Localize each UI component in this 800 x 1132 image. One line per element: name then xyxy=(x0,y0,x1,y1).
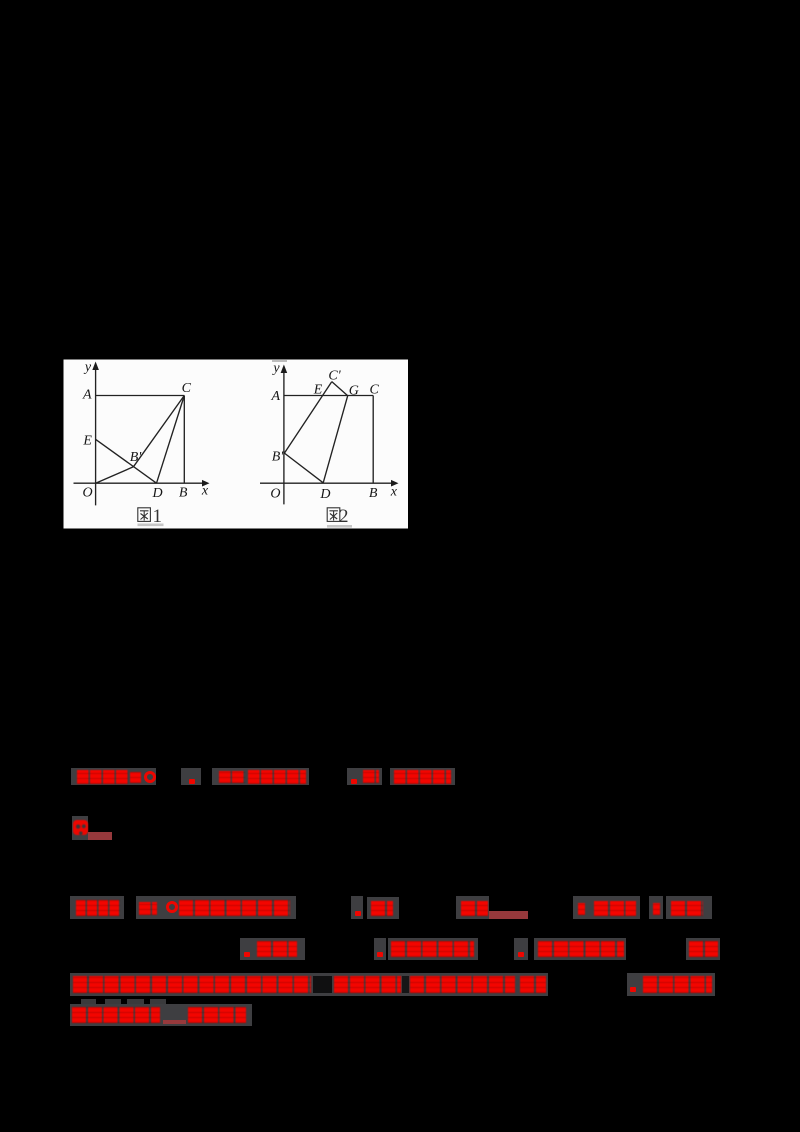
row1 text 【答案】 xyxy=(77,770,128,784)
fig1 square top AC xyxy=(96,395,185,397)
row2 underline bar xyxy=(88,832,112,840)
row4 comma xyxy=(244,952,250,957)
svg-text:B': B' xyxy=(272,450,285,465)
row4 comma xyxy=(377,952,383,957)
svg-text:E: E xyxy=(82,434,92,449)
fig1 segment DC xyxy=(157,396,185,484)
row3 text (或者 xyxy=(594,901,636,916)
svg-text:O: O xyxy=(83,486,93,501)
row3 text 先用 xyxy=(671,901,703,916)
svg-text:B': B' xyxy=(130,450,143,465)
svg-text:A: A xyxy=(82,388,92,403)
fig2 segment GD xyxy=(323,396,348,483)
fig2 y-axis arrowhead xyxy=(281,365,288,374)
row4 gray comma2 xyxy=(374,938,386,960)
row2 gray box xyxy=(72,816,89,840)
row3 gray run b xyxy=(136,896,296,919)
row3 gray comma xyxy=(351,896,363,919)
row3 gray ; xyxy=(649,896,663,919)
svg-text:G: G xyxy=(349,383,359,398)
row3 semicolon xyxy=(653,903,660,915)
svg-text:x: x xyxy=(390,484,398,499)
fig2 segment C'G xyxy=(332,382,348,396)
svg-text:A: A xyxy=(271,389,281,404)
row3 text (1) xyxy=(139,902,157,915)
svg-text:D: D xyxy=(152,486,163,501)
svg-text:C: C xyxy=(182,381,192,396)
row4 gray run xyxy=(388,938,478,960)
row1 text (1) xyxy=(130,772,141,783)
row4 text 再用…的坐标 xyxy=(538,941,624,957)
fig2 segment B'C' xyxy=(284,382,331,454)
svg-text:D: D xyxy=(319,487,330,502)
row3 gray run a xyxy=(70,896,124,919)
svg-text:B: B xyxy=(369,486,378,501)
row1 text 的坐标为 xyxy=(248,770,306,784)
fig1 segment B'C xyxy=(133,396,184,467)
row3 text 可得 xyxy=(461,901,488,916)
row4 gray 得出 xyxy=(253,938,305,960)
row4 gray comma3 xyxy=(514,938,528,960)
row3 text 先用轴对称性质 xyxy=(179,900,290,916)
row3 underline bar xyxy=(489,911,528,919)
inter-row gray dashes xyxy=(81,999,96,1005)
fig2 x-axis arrowhead xyxy=(391,480,399,487)
fig2 segment DB' xyxy=(284,453,323,483)
row3 gray 先用 xyxy=(666,896,712,919)
row4 text 得出D的坐标为 xyxy=(391,941,474,957)
row3 gray 得出 xyxy=(367,897,399,919)
row4 text 得出 xyxy=(257,941,297,957)
svg-text:2: 2 xyxy=(339,506,349,527)
row5 gray run5 xyxy=(639,973,715,996)
row5 text run2 xyxy=(334,976,401,993)
row4 text 可得 xyxy=(689,941,718,957)
row1 text 点D xyxy=(219,771,245,783)
svg-text:y: y xyxy=(83,360,92,375)
row1 circled 1 xyxy=(144,771,156,783)
row1 gray run d xyxy=(347,768,382,785)
row1 comma xyxy=(351,779,357,784)
row1 gray run e xyxy=(390,768,455,785)
svg-text:E: E xyxy=(313,383,323,398)
row5 dark gap xyxy=(313,976,332,993)
row3 gray (或者 xyxy=(590,896,640,919)
caption 图2 xyxy=(327,508,340,522)
fig2 square top AC xyxy=(284,395,373,397)
row5 gray band xyxy=(70,973,548,996)
row5 gray comma xyxy=(627,973,639,996)
svg-text:C': C' xyxy=(328,369,341,384)
svg-text:y: y xyxy=(271,361,280,376)
row3 text 得出 xyxy=(371,901,393,916)
fig1 y-axis xyxy=(95,366,97,505)
row6 gray run1 xyxy=(70,1004,252,1026)
fig2 y-axis xyxy=(283,367,285,504)
fig2 x-axis xyxy=(260,482,393,484)
row1 gray run c xyxy=(212,768,309,785)
row4 comma xyxy=(518,952,524,957)
row1 comma xyxy=(189,779,195,784)
row1 text 的坐标为（ xyxy=(394,770,451,784)
row3 text 【解析】 xyxy=(76,900,120,916)
row5 text run3 xyxy=(410,976,515,993)
row3 comma xyxy=(355,911,361,916)
row6 text run1 xyxy=(72,1007,160,1023)
svg-text:O: O xyxy=(270,487,280,502)
row5 text run4 xyxy=(520,976,546,993)
fig1 y-axis arrowhead xyxy=(92,362,99,371)
fig1 segment OB' xyxy=(96,467,134,483)
row2 circled 2 xyxy=(73,820,89,835)
row4 gray run xyxy=(534,938,626,960)
row3 gray 可得 xyxy=(456,896,489,919)
fig2 square right CB xyxy=(372,396,374,484)
row5 text run5 xyxy=(643,976,712,993)
caption 图1 xyxy=(138,508,151,522)
svg-text:C: C xyxy=(370,383,380,398)
fig1 segment ED xyxy=(96,439,157,483)
row3 circled 1 xyxy=(166,901,178,913)
fig1 square right CB xyxy=(183,396,185,484)
svg-text:x: x xyxy=(201,484,209,499)
row5 dark gap2 xyxy=(402,976,409,993)
row4 gray 可得 xyxy=(686,938,720,960)
row5 text run1 xyxy=(73,976,311,993)
row5 comma xyxy=(630,987,636,992)
fig1 x-axis arrowhead xyxy=(202,480,210,487)
svg-text:B: B xyxy=(179,485,188,500)
row1 gray run a xyxy=(71,768,156,785)
row3 semicolon xyxy=(578,903,585,915)
row1 gray run b xyxy=(181,768,201,785)
row6 underscore xyxy=(163,1020,186,1024)
row6 text run2 xyxy=(188,1007,246,1023)
row4 gray comma xyxy=(240,938,256,960)
fig1 x-axis xyxy=(74,482,204,484)
row3 gray ; xyxy=(573,896,591,919)
row1 text 点B' xyxy=(363,770,379,783)
